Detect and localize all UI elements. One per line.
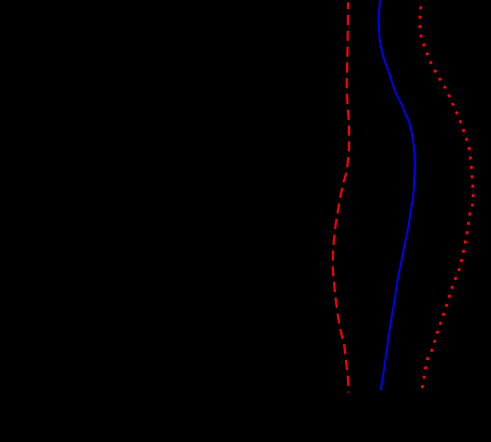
curve: red dashed profile (left) <box>333 2 349 392</box>
curve: red dotted profile (right) <box>420 6 473 392</box>
curve: blue solid profile (middle) <box>379 0 415 390</box>
